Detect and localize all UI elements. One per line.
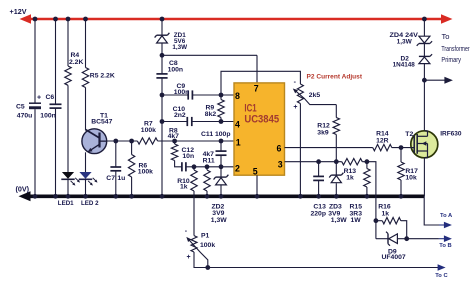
wire IC pin 5 to 0V — [256, 175, 258, 196]
0V rail (ground line) — [19, 191, 425, 201]
node C13 junction — [316, 159, 321, 164]
svg-text:6: 6 — [277, 143, 282, 153]
node R9 bottom junction — [219, 119, 224, 124]
svg-text:3k9: 3k9 — [317, 130, 329, 137]
svg-text:+: + — [293, 104, 297, 111]
svg-text:To: To — [442, 32, 450, 41]
wire P1 bottom to To C line — [194, 252, 439, 268]
resistor R6 100k — [131, 141, 133, 155]
potentiometer P2 2k5 current adjust — [293, 84, 337, 105]
svg-text:4k7: 4k7 — [168, 133, 180, 140]
svg-text:2n2: 2n2 — [174, 112, 186, 119]
capacitor C12 10n — [181, 162, 183, 171]
svg-text:Primary: Primary — [441, 55, 461, 64]
wire C5 to 0V — [34, 109, 36, 196]
wire +12V to R5 — [85, 19, 87, 68]
svg-text:1k: 1k — [346, 174, 354, 181]
capacitor C11 100p — [220, 141, 222, 151]
wire D2 to drain node — [423, 64, 425, 131]
wire C10 to IC pin 4 — [192, 121, 234, 123]
svg-text:100k: 100k — [200, 242, 215, 249]
zener diode ZD2 3V9 — [220, 167, 222, 177]
wire P2 bottom to 0V (crosses pin6 and pin3 wires) — [299, 104, 301, 197]
svg-text:10k: 10k — [405, 174, 417, 181]
svg-text:P2 Current Adjust: P2 Current Adjust — [307, 74, 363, 81]
wire 0V rail end to To A — [424, 196, 439, 225]
svg-text:5: 5 — [253, 166, 258, 176]
svg-text:100n: 100n — [40, 113, 56, 120]
wire C12 to feedback node — [186, 166, 194, 168]
svg-text:1,3W: 1,3W — [172, 44, 187, 51]
wire current sense to R16/D9 (crosses 0V rail) — [362, 162, 376, 239]
resistor R16 1k — [376, 220, 382, 222]
resistor R8 4k7 — [174, 141, 176, 144]
wire LED2 to 0V — [85, 179, 87, 196]
node C11 bottom junction — [219, 164, 224, 169]
junction dots on +12V rail — [33, 17, 38, 22]
svg-text:R5 2.2K: R5 2.2K — [90, 72, 115, 79]
svg-text:7: 7 — [254, 84, 259, 94]
wire Vref pin 8 to C9 — [162, 94, 188, 96]
capacitor C9 100n — [187, 90, 189, 99]
node ZD3 junction — [334, 159, 339, 164]
svg-text:+: + — [187, 254, 191, 261]
wire +12V to ZD4 — [423, 19, 425, 36]
resistor R5 2.2K — [82, 68, 88, 88]
ground bus line from C8 down to 0V — [161, 78, 163, 196]
svg-text:1,3W: 1,3W — [397, 38, 413, 45]
wire R5 to T1 collector — [85, 88, 87, 131]
node R8 top junction — [172, 139, 177, 144]
wire Vref node to P2 top (crosses pin 7 stub) — [221, 71, 300, 95]
resistor R17 10k — [400, 148, 402, 162]
svg-text:1k: 1k — [180, 184, 188, 191]
wire T1 emitter to LED2 — [85, 152, 87, 172]
svg-text:1,3W: 1,3W — [211, 217, 227, 224]
resistor R10 1k — [193, 167, 195, 170]
wire feedback to IC pin 2 — [194, 166, 234, 168]
svg-text:2: 2 — [235, 163, 240, 173]
node R11 top junction — [205, 164, 210, 169]
wire +12V to ZD1 — [161, 19, 163, 35]
svg-text:12R: 12R — [376, 137, 389, 144]
capacitor C8 100n — [156, 73, 167, 75]
svg-text:100k: 100k — [138, 169, 153, 176]
svg-text:R12: R12 — [317, 123, 330, 130]
wire +12V to R4 — [67, 19, 69, 66]
wire +12V to C6 — [55, 19, 57, 104]
svg-text:1W: 1W — [351, 217, 362, 224]
svg-text:To B: To B — [439, 243, 451, 249]
svg-text:(0V): (0V) — [16, 185, 30, 194]
resistor R15 3R3 1W — [366, 162, 368, 169]
wire gnd to C10 — [162, 121, 187, 123]
wire IC pin 3 to R13 — [285, 161, 342, 163]
op-amp IC1 UC3845 PWM controller box — [234, 83, 285, 175]
capacitor C10 2n2 — [186, 117, 188, 126]
svg-text:C11 100p: C11 100p — [201, 131, 230, 138]
svg-text:C6: C6 — [46, 94, 55, 101]
svg-text:UC3845: UC3845 — [244, 114, 279, 126]
svg-text:+12V: +12V — [10, 7, 27, 16]
wire IC pin 6 to R14 — [285, 147, 373, 149]
svg-text:1: 1 — [236, 137, 241, 147]
diode D2 1N4148 — [419, 54, 432, 63]
svg-text:2.2K: 2.2K — [69, 59, 83, 66]
svg-text:P1: P1 — [201, 232, 210, 239]
resistor R7 100k — [137, 138, 157, 144]
wire R4 to LED1 — [67, 85, 69, 172]
resistor R11 4k7 — [206, 167, 208, 170]
node R9 top junction — [219, 93, 224, 98]
wire ZD1 to Vcc node — [161, 43, 163, 74]
capacitor C6 100n — [50, 103, 62, 105]
svg-text:+: + — [37, 94, 41, 101]
wire C9 to IC pin 8 — [192, 94, 234, 96]
svg-text:1k: 1k — [382, 210, 390, 217]
wire T2 source to 0V rail end — [423, 158, 425, 197]
wire C6 to 0V — [55, 108, 57, 196]
potentiometer P1 100k — [186, 236, 208, 268]
svg-text:IRF630: IRF630 — [440, 130, 462, 137]
svg-text:R4: R4 — [71, 52, 80, 59]
svg-text:100k: 100k — [141, 127, 156, 134]
resistor R4 2.2K — [65, 66, 71, 85]
svg-text:10n: 10n — [182, 153, 194, 160]
svg-text:To C: To C — [435, 273, 448, 279]
svg-text:8: 8 — [235, 91, 240, 101]
wire ZD4 to D2 — [423, 44, 425, 57]
LED2 — [79, 172, 98, 186]
svg-text:470u: 470u — [17, 113, 33, 120]
svg-text:3: 3 — [278, 160, 283, 170]
node R6 junction — [129, 139, 134, 144]
node C9 gnd junction — [160, 93, 165, 98]
transistor T1 BC547 — [82, 129, 107, 154]
node D9 right junction — [404, 236, 409, 241]
arrow To C — [438, 264, 446, 271]
svg-text:100n: 100n — [168, 67, 184, 74]
wire R16 to D9 cathode-right corner — [401, 221, 407, 239]
svg-text:100n: 100n — [174, 89, 190, 96]
arrow To A — [444, 222, 452, 229]
LED1 — [61, 172, 80, 186]
arrow To B — [444, 235, 452, 242]
wire to To B arrow — [407, 238, 439, 240]
svg-text:LED 2: LED 2 — [81, 200, 99, 207]
wire T1 base to R7 — [100, 140, 138, 142]
svg-text:220p: 220p — [311, 210, 327, 217]
node P1 wiper junction — [205, 265, 210, 270]
svg-text:2k5: 2k5 — [309, 92, 321, 99]
resistor R14 12R — [373, 144, 392, 150]
node Vcc junction — [160, 53, 165, 58]
svg-text:UF4007: UF4007 — [382, 254, 406, 261]
node transformer junction — [422, 78, 427, 83]
wire and arrow to transformer primary — [424, 79, 446, 81]
node R15 junction — [365, 159, 370, 164]
svg-text:1,3W: 1,3W — [331, 217, 347, 224]
svg-text:To A: To A — [440, 213, 453, 219]
zener diode ZD4 24V 1,3W — [417, 36, 432, 46]
junction dots on 0V rail — [33, 194, 38, 199]
svg-text:1u: 1u — [117, 175, 125, 182]
node R10 top junction — [192, 164, 197, 169]
svg-text:C7: C7 — [106, 175, 115, 182]
wire R7 to IC pin 1 — [158, 140, 234, 142]
svg-text:8k2: 8k2 — [205, 111, 217, 118]
node C10 gnd junction — [160, 119, 165, 124]
wire LED1 to 0V — [67, 179, 69, 196]
svg-text:BC547: BC547 — [91, 119, 112, 126]
node C11 top junction — [219, 139, 224, 144]
wire R14 to T2 gate — [392, 147, 412, 149]
resistor R9 8k2 — [220, 95, 222, 100]
capacitor C5 470u electrolytic — [29, 94, 41, 109]
transistor T2 IRF630 MOSFET — [411, 131, 438, 158]
svg-text:4: 4 — [235, 119, 240, 129]
node R16 left junction — [374, 218, 379, 223]
resistor R12 3k9 — [335, 105, 337, 118]
capacitor C13 220p — [318, 162, 320, 177]
zener diode ZD1 5V6 — [157, 34, 168, 36]
capacitor C7 1u — [115, 141, 117, 167]
resistor R13 1k — [342, 159, 363, 165]
wire R10 to P1 (crosses 0V rail) — [193, 191, 195, 236]
+12V rail (red supply line) — [20, 14, 453, 24]
wire R8 to C12 — [175, 161, 182, 167]
svg-text:LED1: LED1 — [58, 200, 74, 207]
svg-text:1N4148: 1N4148 — [393, 61, 416, 68]
wire Vcc node to IC pin 7 — [162, 54, 257, 56]
svg-text:R14: R14 — [376, 130, 389, 137]
zener diode ZD3 3V9 — [335, 162, 337, 175]
node gate junction — [399, 145, 404, 150]
svg-text:C5: C5 — [16, 104, 25, 111]
svg-text:Transformer: Transformer — [441, 44, 470, 53]
svg-text:T2: T2 — [405, 131, 413, 138]
diode D9 UF4007 — [376, 232, 407, 246]
svg-text:R11: R11 — [203, 157, 215, 164]
wire +12V to C5 — [34, 19, 36, 103]
node C7 junction — [113, 139, 118, 144]
